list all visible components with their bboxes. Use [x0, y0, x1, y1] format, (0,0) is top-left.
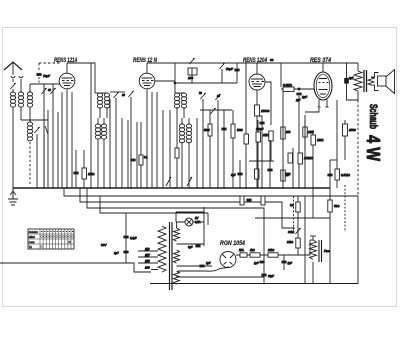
svg-text:70pF: 70pF [43, 74, 50, 78]
svg-text:RENS 1204: RENS 1204 [243, 57, 267, 64]
resistor [139, 155, 143, 165]
resistor 150k [281, 127, 285, 139]
HT line [236, 254, 310, 256]
taps [138, 251, 158, 270]
IF coil pair 2 [174, 93, 179, 108]
resistor 20k [268, 253, 278, 257]
output transformer feed [357, 63, 359, 71]
svg-text:1μF: 1μF [288, 261, 293, 265]
tube V3 RENS 1204 [249, 63, 265, 90]
svg-text:15000: 15000 [261, 109, 270, 113]
cap [130, 159, 135, 162]
svg-text:2V: 2V [194, 216, 198, 220]
capacitor 0,1uF [123, 236, 128, 239]
svg-text:300pF: 300pF [256, 127, 264, 131]
svg-text:150: 150 [145, 259, 150, 263]
IF coil pair 2 secondary [179, 124, 184, 143]
svg-text:4 W: 4 W [363, 135, 384, 161]
wire [282, 89, 284, 188]
tuning cap trimmer [34, 127, 40, 133]
resistor [255, 169, 260, 179]
junction dots on ground bus [43, 187, 306, 189]
ground [8, 188, 18, 205]
wire anode V1 [67, 63, 95, 93]
grid trimmers [41, 88, 47, 94]
wire [29, 142, 31, 186]
svg-text:110: 110 [145, 247, 150, 251]
wire [29, 107, 31, 122]
capacitor 2uF [344, 78, 349, 84]
wire [255, 217, 330, 219]
resistor 1M right [303, 127, 307, 137]
svg-text:Lang: Lang [29, 241, 35, 244]
svg-text:1MΩ: 1MΩ [317, 138, 324, 142]
wire [196, 118, 198, 188]
field choke Fwz [310, 240, 317, 259]
svg-text:1/2MΩ: 1/2MΩ [304, 156, 314, 160]
antenna trimmer C [10, 83, 16, 89]
svg-text:5000: 5000 [237, 129, 243, 132]
coil L1 [10, 92, 15, 107]
resistor 1M [270, 141, 272, 161]
resistor [256, 132, 261, 142]
caps 1uF [259, 261, 264, 264]
wire [309, 240, 311, 255]
output transformer primary [354, 71, 362, 91]
svg-text:150: 150 [286, 130, 291, 134]
lower right verticals [297, 196, 299, 255]
resistor 20k [296, 238, 300, 248]
resistor [288, 153, 293, 163]
trimmer 50pF [219, 63, 225, 69]
speaker [378, 76, 387, 86]
svg-text:1MΩ: 1MΩ [88, 172, 95, 176]
tube V2 RENS 12 N [139, 63, 155, 89]
filament return [178, 266, 228, 271]
resistor 1500 [343, 124, 348, 136]
wire cathode V2 [146, 89, 148, 189]
secondary HT [174, 250, 180, 263]
resistor 0.5M [336, 100, 338, 169]
capacitor 300pF [261, 121, 263, 188]
secondary [368, 77, 374, 85]
wire [12, 107, 14, 188]
resistor [244, 134, 249, 144]
wire [20, 107, 22, 120]
svg-text:30kΩ: 30kΩ [288, 230, 294, 234]
wire [155, 80, 176, 82]
svg-text:60: 60 [270, 58, 274, 62]
top rail [147, 62, 358, 64]
resistor 15000 [255, 105, 260, 116]
switch [45, 126, 48, 134]
grid wire [30, 83, 60, 85]
capacitor 70pF [36, 73, 41, 76]
cap [234, 69, 239, 72]
grid trimmers 3 [200, 93, 206, 99]
svg-text:20kΩ: 20kΩ [267, 248, 274, 252]
dial lamp [185, 216, 201, 226]
svg-text:1μF: 1μF [302, 95, 307, 99]
svg-text:1MΩ: 1MΩ [263, 133, 269, 137]
lamp wiring box [176, 207, 204, 246]
antenna [4, 62, 23, 92]
svg-text:0,5MΩ: 0,5MΩ [341, 173, 351, 177]
IF coil pair 1 [97, 93, 102, 108]
svg-text:0,2MΩ: 0,2MΩ [283, 83, 293, 87]
tube V1 RENS 1214 [59, 63, 75, 89]
svg-text:5kΩ: 5kΩ [334, 204, 340, 208]
wire [256, 116, 258, 188]
svg-text:50: 50 [199, 92, 202, 95]
svg-text:30μF: 30μF [268, 274, 274, 278]
switch table [28, 229, 74, 249]
IF coil pair 1 secondary [95, 124, 100, 139]
volume pot 30k [295, 228, 301, 234]
mains lead [0, 263, 151, 272]
wire [29, 84, 31, 92]
grid trimmers 2 [113, 92, 119, 98]
resistor 20k [281, 170, 285, 181]
core [169, 222, 171, 290]
svg-text:Fwz: Fwz [324, 249, 330, 253]
resistor 1M [311, 135, 316, 145]
resistor 1/2M [298, 153, 303, 164]
primary [158, 226, 166, 272]
svg-text:0,1μF: 0,1μF [130, 236, 137, 240]
resistor 5k [328, 200, 332, 212]
svg-text:1μF: 1μF [296, 99, 301, 102]
svg-text:1μF: 1μF [254, 261, 259, 265]
wire [43, 134, 45, 188]
resistor 1k [250, 253, 260, 257]
svg-text:30: 30 [122, 94, 125, 97]
svg-text:220: 220 [144, 266, 150, 270]
svg-text:RGN 1054: RGN 1054 [220, 241, 246, 247]
AVC dashed line [39, 62, 60, 64]
tube V4 RES 374 [314, 63, 332, 107]
rectifier tube RGN 1054 [220, 252, 236, 268]
svg-text:1μF: 1μF [206, 261, 211, 265]
svg-text:0,1: 0,1 [144, 156, 148, 159]
supply rails stair [64, 188, 358, 196]
svg-text:Mittel: Mittel [29, 236, 35, 239]
secondary LT [174, 271, 180, 284]
cap 3uF [195, 245, 200, 248]
svg-text:2μF: 2μF [348, 76, 354, 80]
transformer core [363, 70, 365, 92]
wire [249, 160, 274, 162]
coil L4 [27, 122, 32, 141]
svg-text:80V: 80V [101, 243, 107, 247]
svg-text:1μF: 1μF [114, 251, 119, 255]
wire [21, 119, 48, 121]
cap [221, 128, 226, 131]
svg-text:Schalter: Schalter [29, 231, 38, 234]
ground bus [13, 187, 330, 189]
wire [90, 63, 92, 188]
svg-text:RES 374: RES 374 [310, 57, 331, 64]
svg-text:1500: 1500 [349, 128, 356, 132]
resistor [231, 124, 235, 138]
svg-text:1kΩ: 1kΩ [250, 248, 255, 252]
svg-text:TA: TA [29, 246, 32, 249]
svg-text:NSL: NSL [239, 248, 245, 252]
node [298, 88, 300, 90]
switch S2 [187, 177, 192, 186]
small comp on rails [240, 196, 244, 205]
wire cathode V1 [66, 89, 68, 189]
power transformer [138, 222, 212, 290]
svg-text:0,1: 0,1 [290, 203, 294, 207]
svg-text:5μF: 5μF [231, 173, 236, 177]
secondary heater [174, 228, 180, 241]
resistor [208, 124, 212, 136]
Schaub 4W logo [363, 104, 384, 161]
svg-text:Schaub: Schaub [367, 104, 379, 129]
capacitor 1uF [296, 93, 301, 96]
trimmer with box 100 [189, 58, 195, 64]
resistor [296, 202, 300, 212]
svg-text:5000: 5000 [204, 129, 210, 132]
fuse NSL [240, 253, 247, 257]
coil L2 [18, 92, 23, 107]
switch S1 [166, 177, 171, 186]
svg-text:20kΩ: 20kΩ [286, 240, 293, 244]
svg-text:127: 127 [145, 253, 150, 257]
coil L3 [27, 92, 32, 107]
caps [237, 173, 242, 176]
svg-text:3μF: 3μF [188, 245, 193, 249]
bottom bus [150, 283, 358, 285]
resistor box mid [82, 168, 87, 179]
svg-text:50pF: 50pF [226, 67, 233, 71]
wire [357, 91, 359, 100]
wave switch [200, 109, 232, 111]
svg-text:30: 30 [48, 89, 51, 92]
resistor 0.2M [283, 87, 294, 92]
wire [125, 213, 127, 263]
capacitor 1uF [123, 251, 128, 254]
cap 30uF [261, 274, 266, 277]
cap 1uF [199, 265, 204, 268]
grid line V4 [281, 88, 314, 90]
wire [36, 134, 38, 188]
svg-text:100: 100 [188, 76, 193, 80]
